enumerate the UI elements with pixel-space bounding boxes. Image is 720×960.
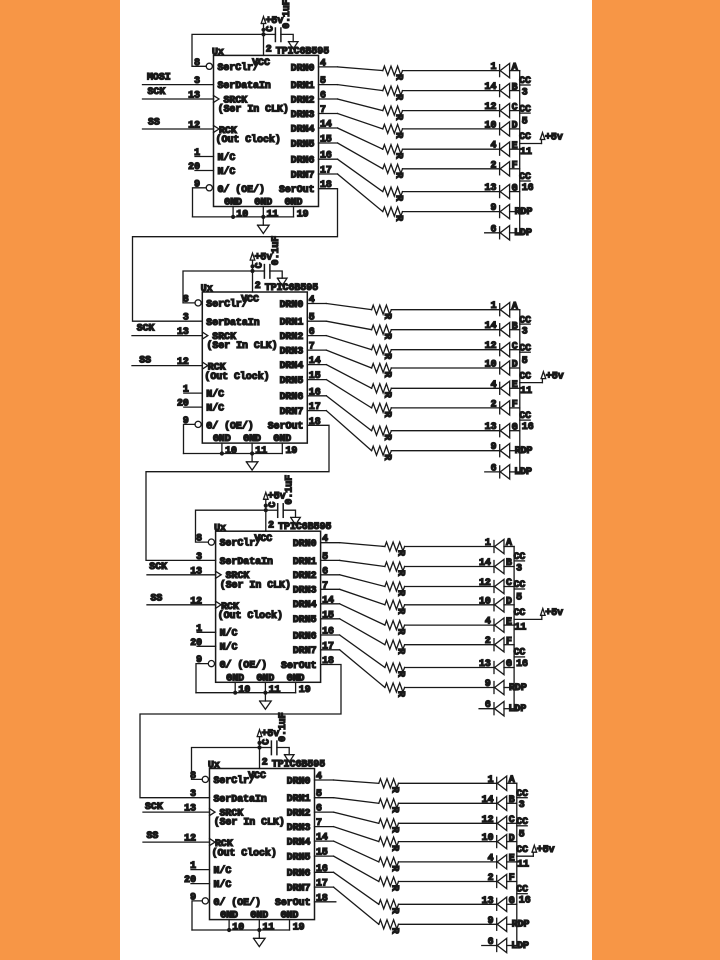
svg-text:11: 11 <box>267 208 279 219</box>
svg-text:SS: SS <box>147 830 159 841</box>
node CC pin 16 (block 4) <box>516 884 531 906</box>
svg-text:CC: CC <box>519 410 531 421</box>
node CC pin 16 (block 3) <box>514 647 529 669</box>
wire: LED C anode to CC bus <box>504 586 514 588</box>
svg-text:5: 5 <box>519 828 525 839</box>
svg-text:DRN3: DRN3 <box>293 585 317 596</box>
wire: LED E anode to CC bus <box>504 624 514 626</box>
IC U3 TPIC6B595 shift register <box>190 519 334 695</box>
svg-text:N/C: N/C <box>214 865 232 876</box>
wire: +5v junction to capacitor <box>264 33 276 35</box>
wire: LED E anode to CC bus <box>510 387 520 389</box>
svg-text:DRN3: DRN3 <box>287 822 311 833</box>
svg-text:12: 12 <box>485 101 497 112</box>
svg-text:SS: SS <box>151 592 163 603</box>
wire: resistor to LED segment F (block 2) <box>391 407 499 409</box>
wire: LDP cathode stub (pin 6, unconnected) <box>485 471 500 473</box>
node SS <box>151 592 163 603</box>
svg-text:R: R <box>395 648 406 654</box>
svg-text:3: 3 <box>522 326 528 337</box>
svg-text:TPIC6B595: TPIC6B595 <box>265 282 318 293</box>
LED segment B pin 14 (block 2) <box>485 320 518 337</box>
wire: capacitor to ground <box>281 34 293 41</box>
svg-text:DRN4: DRN4 <box>291 123 315 134</box>
power +5v (VCC of U3) <box>264 491 286 511</box>
wire: resistor to LED segment E (block 2) <box>391 387 499 389</box>
wire: resistor to LED segment E (block 3) <box>405 624 494 626</box>
wire: +5v to SerClr/ pin 8 (U4) <box>192 748 260 780</box>
wire: +5v to SerClr/ pin 8 (U3) <box>196 510 266 542</box>
svg-text:19: 19 <box>293 922 305 933</box>
wire: resistor to LED segment A (block 1) <box>403 70 500 72</box>
svg-text:C: C <box>267 502 278 508</box>
capacitor C 0.1uF (block 1) <box>265 0 293 42</box>
svg-text:DRN3: DRN3 <box>291 109 315 120</box>
wire: LED G anode to CC bus <box>510 430 520 432</box>
svg-text:19: 19 <box>286 445 298 456</box>
wire: resistor to LED segment RDP (block 2) <box>391 450 499 452</box>
svg-text:3: 3 <box>522 86 528 97</box>
svg-text:DRN4: DRN4 <box>287 837 311 848</box>
svg-text:CC: CC <box>514 551 526 562</box>
svg-text:9: 9 <box>490 202 496 213</box>
LED segment D pin 10 (block 1) <box>485 119 518 136</box>
wire: SerOut pin 18 stub (U3) <box>140 665 341 798</box>
wire: LED RDP anode to CC bus <box>507 923 517 925</box>
wire: CC common bus (block 4) <box>516 783 518 945</box>
LED segment RDP pin 9 (block 1) <box>490 202 532 219</box>
svg-text:4: 4 <box>488 852 494 863</box>
node CC pin 3 (block 2) <box>519 314 531 336</box>
power +5v (CC bus, block 1) <box>540 131 563 143</box>
wire: DRN5 pin to resistor (block 3) <box>321 619 385 645</box>
svg-text:R: R <box>389 787 400 793</box>
wire: resistor to LED segment B (block 3) <box>405 566 494 568</box>
svg-text:11: 11 <box>517 859 529 870</box>
LED segment C pin 12 (block 4) <box>482 814 515 831</box>
svg-text:R: R <box>395 629 406 635</box>
resistor R (DRN2, block 4) <box>379 819 401 833</box>
wire: LED B anode to CC bus <box>504 566 514 568</box>
svg-text:DRN2: DRN2 <box>291 94 315 105</box>
wire: DRN7 pin to resistor (block 4) <box>315 887 379 924</box>
svg-text:DRN5: DRN5 <box>287 852 311 863</box>
wire: CC common bus (block 3) <box>513 547 515 709</box>
wire: +5v junction to capacitor <box>260 747 272 749</box>
svg-text:SCK: SCK <box>137 323 155 334</box>
svg-text:MOSI: MOSI <box>147 72 171 83</box>
svg-text:R: R <box>382 392 393 398</box>
svg-text:CC: CC <box>519 314 531 325</box>
svg-text:R: R <box>395 608 406 614</box>
wire: resistor to LED segment G (block 1) <box>403 191 500 193</box>
wire: DRN4 pin to resistor (block 4) <box>315 841 379 862</box>
svg-text:CC: CC <box>519 342 531 353</box>
LED segment A pin 1 (block 2) <box>491 300 518 317</box>
wire: +5v to VCC pin 2 <box>263 34 265 55</box>
svg-text:DRN4: DRN4 <box>293 599 317 610</box>
svg-text:SerOut: SerOut <box>281 660 317 671</box>
wire: resistor to LED segment C (block 2) <box>391 349 499 351</box>
svg-text:SCK: SCK <box>145 801 163 812</box>
LED segment A pin 1 (block 4) <box>488 774 515 791</box>
wire: DRN6 pin to resistor (block 2) <box>307 396 371 431</box>
svg-text:G/ (OE/): G/ (OE/) <box>220 660 267 671</box>
resistor R (DRN3, block 3) <box>385 600 407 614</box>
wire: DRN1 pin to resistor (block 1) <box>319 85 383 91</box>
resistor R (DRN4, block 2) <box>372 384 394 398</box>
wire: LED A anode to CC bus <box>510 70 520 72</box>
svg-text:SerDataIn: SerDataIn <box>214 793 267 804</box>
wire: LED D anode to CC bus <box>510 367 520 369</box>
svg-text:CC: CC <box>516 884 528 895</box>
wire: ground rail (pins 10,11,19 of U3) <box>196 692 296 694</box>
svg-text:+5v: +5v <box>545 607 563 618</box>
svg-text:SerOut: SerOut <box>268 421 304 432</box>
wire: LED RDP anode to CC bus <box>510 450 520 452</box>
wire: DRN2 pin to resistor (block 3) <box>321 575 385 587</box>
svg-text:+5v: +5v <box>545 131 563 142</box>
svg-text:N/C: N/C <box>214 879 232 890</box>
svg-text:CC: CC <box>514 647 526 658</box>
wire: LED D anode to CC bus <box>510 128 520 130</box>
LED segment E pin 4 (block 3) <box>485 616 512 633</box>
svg-text:10: 10 <box>485 359 497 370</box>
svg-text:R: R <box>382 454 393 460</box>
svg-text:12: 12 <box>482 814 494 825</box>
wire: resistor to LED segment A (block 2) <box>391 309 499 311</box>
svg-text:N/C: N/C <box>206 389 224 400</box>
wire: +5v to VCC pin 2 <box>259 748 261 769</box>
svg-text:DRN6: DRN6 <box>293 630 317 641</box>
svg-text:SerDataIn: SerDataIn <box>220 556 273 567</box>
wire: resistor to LED segment B (block 1) <box>403 90 500 92</box>
svg-text:(Out Clock): (Out Clock) <box>204 371 269 382</box>
wire: LED E anode to CC bus <box>507 861 517 863</box>
wire: ground rail (pins 10,11,19 of U4) <box>192 929 290 931</box>
node: +5v junction dots <box>261 28 265 37</box>
wire: G/(OE/) pin 9 to ground rail (U2) <box>184 424 196 453</box>
svg-text:N/C: N/C <box>206 403 224 414</box>
svg-text:SS: SS <box>148 116 160 127</box>
svg-text:1: 1 <box>488 774 494 785</box>
node: ground rail junctions <box>233 691 267 695</box>
LED segment G pin 13 (block 1) <box>485 182 518 199</box>
svg-text:R: R <box>395 550 406 556</box>
svg-text:13: 13 <box>482 895 494 906</box>
wire: DRN1 pin to resistor (block 4) <box>315 798 379 804</box>
svg-text:CC: CC <box>514 579 526 590</box>
right orange sidebar <box>592 0 720 960</box>
wire: LED B anode to CC bus <box>507 802 517 804</box>
svg-text:R: R <box>389 845 400 851</box>
resistor R (DRN0, block 3) <box>385 542 407 556</box>
wire: DRN0 pin to resistor (block 1) <box>319 67 383 71</box>
wire: SCK to SRCK pin 13 (U2) <box>132 335 202 337</box>
resistor R (DRN1, block 4) <box>379 799 401 813</box>
wire: G/(OE/) pin 9 to ground rail (U1) <box>193 188 207 217</box>
resistor R (DRN0, block 2) <box>372 305 394 319</box>
svg-text:11: 11 <box>520 146 532 157</box>
wire: resistor to LED segment G (block 3) <box>405 667 494 669</box>
svg-text:DRN6: DRN6 <box>287 868 311 879</box>
wire: DRN2 pin to resistor (block 2) <box>307 336 371 350</box>
svg-text:3: 3 <box>516 562 522 573</box>
svg-text:DRN2: DRN2 <box>287 808 311 819</box>
node CC pin 11 (block 1) <box>519 131 541 157</box>
svg-text:DRN1: DRN1 <box>280 317 304 328</box>
svg-text:Ux: Ux <box>201 283 213 294</box>
node SCK <box>149 561 167 572</box>
wire: LED B anode to CC bus <box>510 329 520 331</box>
LED segment F pin 2 (block 4) <box>488 872 515 889</box>
power +5v (VCC of U4) <box>257 728 279 748</box>
resistor R (DRN3, block 2) <box>372 364 394 378</box>
node: +5v junction dots <box>250 264 254 273</box>
wire: resistor to LED segment G (block 2) <box>391 430 499 432</box>
power +5v (CC bus, block 2) <box>541 370 564 382</box>
svg-text:CC: CC <box>516 844 528 855</box>
node SCK <box>145 801 163 812</box>
wire: LED C anode to CC bus <box>507 822 517 824</box>
LED segment D pin 10 (block 2) <box>485 359 518 376</box>
wire: resistor to LED segment RDP (block 4) <box>399 923 497 925</box>
node SCK <box>137 323 155 334</box>
wire: LED F anode to CC bus <box>510 168 520 170</box>
svg-text:10: 10 <box>485 119 497 130</box>
wire: LDP anode to CC bus <box>510 471 520 473</box>
LED segment G pin 13 (block 3) <box>479 658 512 675</box>
svg-text:R: R <box>395 590 406 596</box>
svg-text:DRN2: DRN2 <box>280 331 304 342</box>
svg-text:SerOut: SerOut <box>275 897 311 908</box>
LED segment F pin 2 (block 3) <box>485 635 512 652</box>
wire: SCK to SRCK pin 13 (U1) <box>143 98 214 100</box>
capacitor C 0.1uF (block 2) <box>254 236 282 278</box>
wire: resistor to LED segment C (block 4) <box>399 822 497 824</box>
wire: resistor to LED segment A (block 4) <box>399 782 497 784</box>
svg-text:16: 16 <box>519 895 531 906</box>
node CC pin 11 (block 2) <box>519 370 542 396</box>
resistor R (DRN7, block 1) <box>383 207 405 221</box>
LED segment RDP pin 9 (block 2) <box>491 441 533 458</box>
resistor R (DRN2, block 1) <box>383 106 405 120</box>
resistor R (DRN4, block 4) <box>379 857 401 871</box>
svg-text:C: C <box>254 262 265 268</box>
svg-text:19: 19 <box>297 208 309 219</box>
svg-text:G/ (OE/): G/ (OE/) <box>218 184 265 195</box>
wire: DRN5 pin to resistor (block 1) <box>319 143 383 169</box>
resistor R (DRN7, block 4) <box>379 920 401 934</box>
power +5v (CC bus, block 4) <box>532 844 555 856</box>
svg-text:14: 14 <box>485 320 497 331</box>
wire: resistor to LED segment RDP (block 3) <box>405 687 494 689</box>
wire: DRN7 pin to resistor (block 3) <box>321 650 385 688</box>
wire: LED F anode to CC bus <box>504 644 514 646</box>
wire: LED RDP anode to CC bus <box>504 687 514 689</box>
resistor R (DRN4, block 3) <box>385 621 407 635</box>
LED segment F pin 2 (block 1) <box>490 159 517 176</box>
wire: SCK to SRCK pin 13 (U3) <box>147 574 216 576</box>
LED segment LDP pin 6 (block 2) <box>491 462 532 479</box>
svg-text:SerOut: SerOut <box>279 184 315 195</box>
svg-text:14: 14 <box>485 81 497 92</box>
svg-text:R: R <box>382 333 393 339</box>
svg-text:14: 14 <box>482 794 494 805</box>
svg-text:G/ (OE/): G/ (OE/) <box>214 897 261 908</box>
svg-text:Ux: Ux <box>214 522 226 533</box>
svg-text:R: R <box>393 114 404 120</box>
wire: SerOut pin 18 stub (U2) <box>146 425 329 560</box>
wire: LED D anode to CC bus <box>504 604 514 606</box>
svg-text:R: R <box>389 865 400 871</box>
wire: resistor to LED segment D (block 1) <box>403 128 500 130</box>
wire: CC common bus (block 1) <box>519 71 521 233</box>
LED segment LDP pin 6 (block 1) <box>490 223 531 240</box>
svg-text:13: 13 <box>479 658 491 669</box>
svg-text:5: 5 <box>522 116 528 127</box>
wire: resistor to LED segment C (block 3) <box>405 586 494 588</box>
svg-text:R: R <box>382 434 393 440</box>
wire: resistor to LED segment F (block 1) <box>403 168 500 170</box>
svg-text:DRN1: DRN1 <box>287 793 311 804</box>
svg-text:R: R <box>389 807 400 813</box>
svg-text:(Ser In CLK): (Ser In CLK) <box>214 817 285 828</box>
resistor R (DRN5, block 2) <box>372 403 394 417</box>
node CC pin 3 (block 3) <box>514 551 526 573</box>
svg-text:R: R <box>393 195 404 201</box>
LED segment C pin 12 (block 2) <box>485 340 518 357</box>
wire: DRN5 pin to resistor (block 4) <box>315 856 379 881</box>
svg-text:G/ (OE/): G/ (OE/) <box>206 420 253 431</box>
resistor R (DRN0, block 4) <box>379 779 401 793</box>
wire: resistor to LED segment F (block 3) <box>405 644 494 646</box>
svg-text:SerClr/: SerClr/ <box>206 299 248 310</box>
svg-text:N/C: N/C <box>220 642 238 653</box>
LED segment G pin 13 (block 4) <box>482 895 515 912</box>
svg-text:13: 13 <box>485 421 497 432</box>
svg-text:+5v: +5v <box>546 370 564 381</box>
resistor R (DRN1, block 3) <box>385 562 407 576</box>
svg-text:DRN7: DRN7 <box>280 406 304 417</box>
svg-text:TPIC6B595: TPIC6B595 <box>278 521 331 532</box>
svg-text:DRN7: DRN7 <box>291 169 315 180</box>
wire: ground rail (pins 10,11,19 of U2) <box>184 453 283 455</box>
svg-text:10: 10 <box>236 208 248 219</box>
svg-text:R: R <box>382 353 393 359</box>
svg-text:N/C: N/C <box>218 166 236 177</box>
resistor R (DRN1, block 2) <box>372 325 394 339</box>
svg-text:Ux: Ux <box>212 47 224 58</box>
wire: DRN1 pin to resistor (block 3) <box>321 560 385 566</box>
wire: LDP anode to CC bus <box>510 232 520 234</box>
svg-text:11: 11 <box>515 622 527 633</box>
svg-text:DRN7: DRN7 <box>293 645 317 656</box>
svg-text:R: R <box>382 411 393 417</box>
LED segment G pin 13 (block 2) <box>485 421 518 438</box>
wire: +5v junction to capacitor <box>253 270 265 272</box>
svg-text:10: 10 <box>482 832 494 843</box>
node CC pin 5 (block 3) <box>514 579 526 602</box>
wire: G/(OE/) pin 9 to ground rail (U4) <box>192 901 202 930</box>
wire: DRN3 pin to resistor (block 1) <box>319 114 383 129</box>
svg-text:9: 9 <box>491 441 497 452</box>
svg-text:(Ser In CLK): (Ser In CLK) <box>220 579 291 590</box>
wire: LDP cathode stub (pin 6, unconnected) <box>479 708 494 710</box>
node SCK <box>148 86 166 97</box>
wire: DRN6 pin to resistor (block 3) <box>321 635 385 668</box>
wire: DRN7 pin to resistor (block 1) <box>319 174 383 212</box>
wire: resistor to LED segment F (block 4) <box>399 881 497 883</box>
svg-text:SCK: SCK <box>148 86 166 97</box>
node: ground rail junctions <box>227 928 261 932</box>
svg-text:3: 3 <box>196 551 202 562</box>
svg-text:12: 12 <box>485 340 497 351</box>
svg-text:2: 2 <box>485 635 491 646</box>
LED segment E pin 4 (block 4) <box>488 852 515 869</box>
svg-text:10: 10 <box>225 445 237 456</box>
wire: resistor to LED segment RDP (block 1) <box>403 211 500 213</box>
svg-text:N/C: N/C <box>218 152 236 163</box>
svg-text:TPIC6B595: TPIC6B595 <box>272 759 325 770</box>
wire: DRN4 pin to resistor (block 1) <box>319 128 383 149</box>
svg-text:2: 2 <box>266 44 272 55</box>
resistor R (DRN4, block 1) <box>383 145 405 159</box>
svg-text:1: 1 <box>485 537 491 548</box>
svg-text:2: 2 <box>488 872 494 883</box>
node: +5v junction dots <box>264 504 268 513</box>
svg-text:SerClr/: SerClr/ <box>218 62 260 73</box>
wire: SS to RCK pin 12 (U3) <box>147 604 216 606</box>
node CC pin 5 (block 1) <box>519 103 531 126</box>
wire: +5v to SerClr/ pin 8 (U1) <box>192 34 264 66</box>
svg-text:4: 4 <box>485 616 491 627</box>
node: +5v junction dots <box>257 741 261 750</box>
svg-text:16: 16 <box>522 421 534 432</box>
wire: +5v to VCC pin 2 <box>265 510 267 531</box>
ground (U4 GND pins) <box>254 930 266 947</box>
resistor R (DRN5, block 3) <box>385 640 407 654</box>
svg-text:10: 10 <box>232 922 244 933</box>
wire: DRN3 pin to resistor (block 4) <box>315 827 379 842</box>
wire: DRN2 pin to resistor (block 1) <box>319 99 383 111</box>
svg-text:12: 12 <box>479 577 491 588</box>
node CC pin 16 (block 2) <box>519 410 534 432</box>
wire: LED A anode to CC bus <box>504 546 514 548</box>
LED segment C pin 12 (block 3) <box>479 577 512 594</box>
svg-text:5: 5 <box>522 355 528 366</box>
svg-text:19: 19 <box>299 684 311 695</box>
svg-text:DRN0: DRN0 <box>280 299 304 310</box>
LED segment F pin 2 (block 2) <box>491 398 518 415</box>
svg-text:R: R <box>393 153 404 159</box>
svg-text:R: R <box>382 313 393 319</box>
svg-text:11: 11 <box>520 385 532 396</box>
svg-text:3: 3 <box>183 312 189 323</box>
svg-text:(Out Clock): (Out Clock) <box>212 847 277 858</box>
node CC pin 5 (block 2) <box>519 342 531 365</box>
svg-text:1: 1 <box>491 300 497 311</box>
svg-text:CC: CC <box>514 607 526 618</box>
wire: DRN4 pin to resistor (block 2) <box>307 365 371 389</box>
resistor R (DRN1, block 1) <box>383 86 405 100</box>
resistor R (DRN6, block 1) <box>383 187 405 201</box>
wire: LED A anode to CC bus <box>510 309 520 311</box>
svg-text:13: 13 <box>485 182 497 193</box>
ground (U3 GND pins) <box>260 693 272 710</box>
svg-text:0.1uF: 0.1uF <box>277 712 288 742</box>
svg-text:10: 10 <box>479 595 491 606</box>
